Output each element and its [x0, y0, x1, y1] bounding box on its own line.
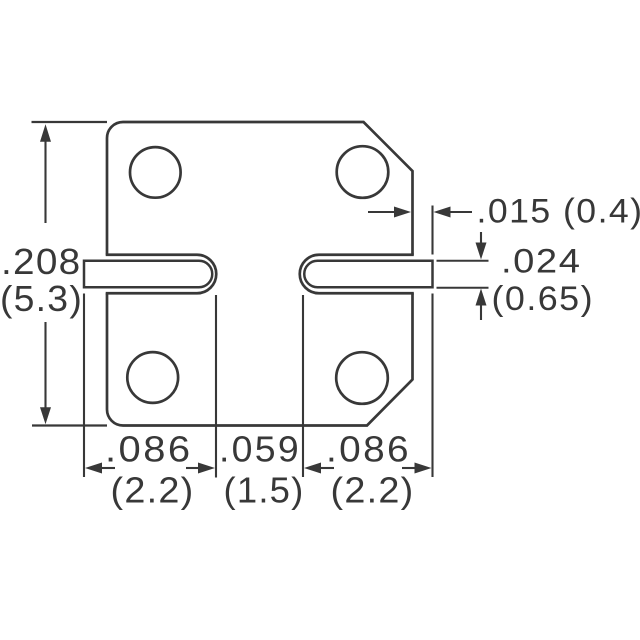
dim .015 left arrow	[368, 207, 411, 218]
svg-text:.015 (0.4): .015 (0.4)	[477, 193, 640, 231]
dim .208 dimension line lower segment	[44, 322, 46, 418]
dim .208 up arrowhead	[40, 124, 51, 142]
right terminal lead	[304, 261, 432, 288]
svg-text:(0.65): (0.65)	[492, 280, 595, 318]
dim .086 left rightward arrow	[186, 463, 215, 474]
dim .024 bottom extension line	[437, 287, 489, 289]
svg-text:.024: .024	[501, 242, 582, 280]
dim .024 top extension line	[437, 260, 489, 262]
svg-text:(2.2): (2.2)	[331, 470, 415, 511]
hole top-right	[337, 146, 389, 198]
dim .086 left leftward arrow	[85, 463, 115, 474]
dim .015 extension line	[431, 206, 433, 255]
svg-text:.059: .059	[219, 429, 301, 470]
dim .015 right arrow	[434, 207, 473, 218]
dim .208 dimension line upper segment	[44, 132, 46, 223]
dim .059 extension line	[302, 295, 304, 477]
capacitor body outline	[107, 122, 413, 426]
svg-text:(1.5): (1.5)	[224, 470, 305, 511]
svg-text:(2.2): (2.2)	[111, 470, 195, 511]
hole top-left	[130, 147, 181, 198]
dim .086 left extension line A	[83, 294, 85, 478]
svg-text:.208: .208	[1, 241, 82, 282]
hole bottom-left	[127, 352, 178, 403]
dim .086 left extension line B	[215, 295, 217, 478]
svg-text:.086: .086	[326, 429, 411, 470]
dim .208 bottom extension line	[32, 424, 107, 426]
left terminal outer slot	[103, 255, 216, 294]
dim .086 right leftward arrow	[304, 463, 334, 474]
dim .208 down arrowhead	[40, 407, 51, 424]
svg-text:.086: .086	[105, 429, 193, 470]
left terminal lead	[84, 261, 212, 288]
dim .024 down arrow	[476, 232, 487, 260]
hole bottom-right	[336, 352, 388, 404]
dim .208 top extension line	[32, 121, 108, 123]
svg-text:(5.3): (5.3)	[0, 278, 83, 319]
dim .024 up arrow	[476, 289, 487, 321]
right terminal outer slot	[300, 255, 416, 294]
dim .086 right rightward arrow	[402, 463, 432, 474]
